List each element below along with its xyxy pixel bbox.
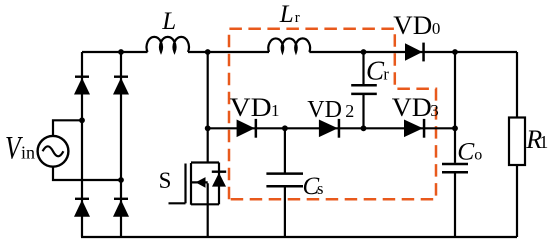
svg-text:L: L: [161, 8, 176, 35]
svg-text:1: 1: [271, 101, 280, 120]
svg-text:0: 0: [432, 19, 441, 38]
svg-text:VD: VD: [392, 93, 432, 122]
svg-text:1: 1: [539, 132, 548, 152]
svg-text:C: C: [366, 55, 385, 85]
svg-text:S: S: [159, 168, 172, 193]
svg-text:in: in: [21, 143, 35, 163]
svg-text:VD: VD: [393, 11, 432, 40]
svg-text:VD: VD: [230, 93, 272, 122]
svg-text:s: s: [317, 179, 323, 198]
svg-text:L: L: [279, 1, 294, 28]
svg-text:o: o: [474, 146, 482, 163]
svg-text:r: r: [383, 64, 389, 83]
svg-text:VD: VD: [307, 97, 342, 123]
svg-text:C: C: [457, 136, 475, 165]
svg-text:3: 3: [430, 101, 439, 120]
svg-text:r: r: [295, 10, 300, 26]
svg-text:2: 2: [345, 101, 354, 121]
